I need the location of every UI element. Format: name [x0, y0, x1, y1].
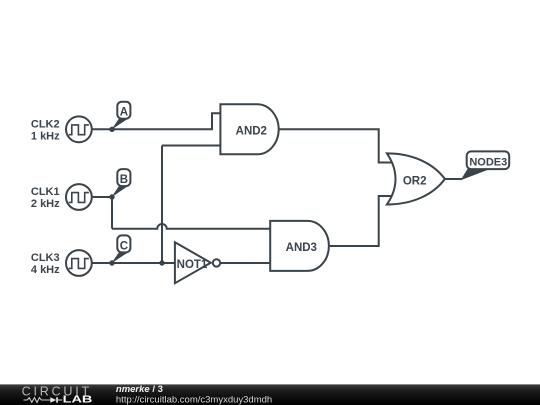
footer bar: [0, 384, 540, 405]
svg-text:1 kHz: 1 kHz: [31, 131, 60, 143]
clock source CLK3 circle: [66, 250, 92, 276]
flag B connector wedge: [112, 186, 128, 197]
clock source CLK2 circle: [66, 116, 92, 142]
CLK1 square wave glyph: [69, 193, 89, 203]
svg-text:CLK1: CLK1: [31, 186, 60, 198]
wire AND2 bottom input from C vertical: [162, 145, 222, 147]
svg-text:2 kHz: 2 kHz: [31, 198, 60, 210]
junction node A dot: [109, 127, 114, 132]
logo diode: [50, 397, 56, 402]
AND gate AND2: [220, 104, 278, 154]
svg-text:NOT1: NOT1: [177, 259, 208, 271]
wire B horizontal with hop over C vertical, to AND3 top input: [112, 224, 272, 229]
clock source CLK1 circle: [66, 184, 92, 210]
wire NOT1 output to AND3 bottom input: [220, 262, 271, 264]
wire C vertical: C node up to AND2 bottom input: [161, 146, 163, 264]
OR gate OR2: [387, 153, 445, 204]
flag A box: [117, 102, 130, 119]
wire B vertical down: [111, 196, 113, 229]
wire A row: CLK2 to AND2 top input: [92, 113, 221, 129]
logo resistor zigzag: [24, 398, 51, 403]
svg-text:A: A: [120, 107, 128, 119]
wire AND2 output to OR2 top input: [279, 129, 394, 162]
svg-text:AND2: AND2: [236, 125, 267, 137]
flag C connector wedge: [112, 253, 128, 264]
flag NODE3 box: [467, 151, 510, 169]
svg-text:CLK3: CLK3: [31, 252, 60, 264]
flag C box: [117, 235, 130, 252]
CLK3 square wave glyph: [69, 259, 89, 269]
wire AND3 output to OR2 bottom input: [329, 196, 393, 246]
flag NODE3 connector wedge: [461, 169, 491, 180]
svg-text:LAB: LAB: [63, 394, 93, 405]
svg-text:C: C: [120, 240, 128, 252]
wire OR2 output to NODE3 flag: [445, 178, 463, 180]
NOT1 output bubble: [213, 259, 220, 266]
AND gate AND3: [270, 221, 329, 271]
NOT gate NOT1 triangle: [175, 242, 211, 283]
junction node B dot: [109, 194, 114, 199]
wire B row: CLK1 to corner: [92, 196, 112, 198]
svg-text:AND3: AND3: [286, 242, 317, 254]
svg-text:CLK2: CLK2: [31, 119, 60, 131]
svg-text:B: B: [120, 174, 128, 186]
junction dot C vertical: [159, 260, 164, 265]
CLK2 square wave glyph: [69, 125, 89, 135]
flag B box: [117, 169, 130, 186]
svg-text:http://circuitlab.com/c3myxduy: http://circuitlab.com/c3myxduy3dmdh: [116, 394, 272, 405]
svg-text:OR2: OR2: [403, 176, 427, 188]
wire C row: CLK3 to NOT1 input: [92, 262, 176, 264]
junction node C dot: [109, 260, 114, 265]
svg-text:NODE3: NODE3: [469, 157, 507, 169]
flag A connector wedge: [112, 119, 128, 130]
svg-text:4 kHz: 4 kHz: [31, 264, 60, 276]
